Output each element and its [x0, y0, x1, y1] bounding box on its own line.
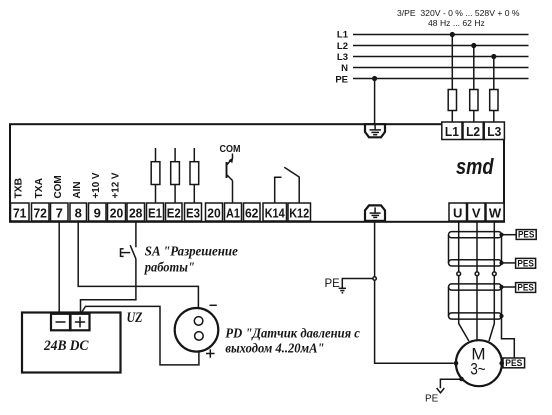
svg-text:U: U	[453, 205, 462, 220]
svg-text:20: 20	[110, 205, 124, 220]
svg-text:E3: E3	[186, 205, 200, 220]
wire motor frame to PE arrow	[440, 379, 461, 388]
minus terminal of UZ	[51, 314, 70, 331]
svg-text:выходом 4..20мА": выходом 4..20мА"	[225, 341, 324, 356]
svg-text:K14: K14	[265, 205, 286, 220]
svg-text:L2: L2	[466, 124, 480, 139]
terminal 20b	[206, 203, 223, 221]
cable shield capsule 1	[449, 232, 502, 238]
fuse F3	[490, 90, 498, 111]
svg-text:9: 9	[94, 205, 101, 220]
wire shield 4 to PES 4	[502, 316, 515, 358]
svg-text:PD "Датчик давления с: PD "Датчик давления с	[225, 326, 360, 341]
svg-text:PES: PES	[517, 283, 534, 293]
wire motor right to PES 4	[502, 362, 503, 364]
connector circle W	[492, 272, 496, 276]
wire to PES 2	[502, 262, 516, 264]
earth symbol PE branch	[339, 288, 346, 293]
junction motor frame	[459, 377, 464, 382]
svg-text:L3: L3	[487, 124, 501, 139]
wire sensor plus to supply plus	[81, 306, 199, 365]
input resistor E3	[193, 148, 195, 162]
svg-text:3/PE 320V - 0 % ... 528V + 0: 3/PE 320V - 0 % ... 528V + 0 %	[397, 8, 520, 18]
junction shield 4	[499, 314, 503, 318]
sensor terminal top	[194, 317, 203, 326]
wire mains L3	[353, 56, 529, 58]
svg-text:PE: PE	[325, 278, 341, 290]
terminal 9	[89, 203, 107, 221]
label PES 3	[516, 283, 536, 293]
wire PE drop to drive	[374, 79, 376, 125]
svg-text:работы": работы"	[144, 260, 195, 275]
terminal 7	[51, 203, 69, 221]
terminal 28	[127, 203, 145, 221]
cable shield capsule 3	[449, 284, 502, 290]
earth symbol in top cup	[370, 124, 382, 134]
svg-text:SA "Разрешение: SA "Разрешение	[145, 244, 238, 259]
motor M1	[456, 340, 502, 386]
junction on L2	[471, 43, 476, 48]
wire terminal 28 to switch	[135, 221, 137, 247]
svg-text:48 Hz ... 62 Hz: 48 Hz ... 62 Hz	[428, 18, 485, 28]
switch SA blade	[130, 245, 136, 259]
wire terminal 8 to sensor minus	[78, 221, 198, 317]
wire mains L2	[353, 45, 529, 47]
wire motor phase W	[489, 221, 494, 341]
junction motor right	[499, 361, 504, 366]
terminal L3	[484, 122, 504, 140]
wire to PES 1	[502, 234, 517, 236]
wire PE branch to earth	[342, 279, 373, 289]
terminal K14	[263, 203, 287, 221]
transistor output A1	[227, 154, 233, 204]
svg-text:smd: smd	[456, 154, 494, 179]
svg-text:K12: K12	[289, 205, 309, 220]
svg-text:L1: L1	[337, 30, 349, 41]
cable shield capsule 2	[449, 260, 502, 266]
wire switch to plus	[81, 259, 136, 314]
sensor terminal bottom	[195, 332, 204, 341]
sensor plus sign	[206, 349, 215, 357]
cable shield capsule 4	[449, 313, 502, 319]
svg-text:28: 28	[129, 205, 143, 220]
svg-text:TXB: TXB	[12, 178, 24, 199]
svg-text:72: 72	[33, 205, 47, 220]
terminal 71	[11, 203, 30, 221]
svg-text:COM: COM	[220, 143, 241, 155]
earth symbol in bottom cup	[370, 207, 381, 217]
terminal L2	[463, 122, 483, 140]
shield section 2 sides	[449, 287, 502, 316]
terminal U	[449, 203, 467, 221]
svg-text:L1: L1	[445, 124, 459, 139]
connector circle V	[475, 272, 479, 276]
junction motor left	[454, 361, 459, 366]
svg-text:71: 71	[13, 205, 27, 220]
junction on PE	[372, 76, 377, 81]
wire mains PE	[353, 78, 529, 80]
drive smd enclosure	[10, 124, 504, 222]
wire mains L1	[353, 34, 529, 36]
svg-text:PE: PE	[335, 74, 348, 85]
transistor emitter arrow	[229, 157, 234, 163]
PE terminal cup bottom	[365, 205, 385, 220]
wire to PES 3	[502, 286, 516, 288]
relay contact K12 blade	[284, 167, 299, 203]
terminal 20	[108, 203, 126, 221]
svg-text:A1: A1	[226, 205, 240, 220]
wire L2 drop to fuse	[473, 46, 475, 123]
junction shield 2	[499, 261, 503, 265]
wire terminal 7 to minus	[58, 221, 60, 314]
svg-text:7: 7	[56, 205, 63, 220]
svg-text:TXA: TXA	[33, 178, 45, 199]
junction shield 3	[499, 285, 503, 289]
PE terminal cup top	[365, 124, 385, 137]
wire PE from drive to motor	[375, 221, 454, 363]
svg-text:L2: L2	[337, 41, 348, 52]
junction on L1	[450, 32, 455, 37]
svg-text:62: 62	[245, 205, 259, 220]
svg-text:+12 V: +12 V	[109, 173, 121, 199]
svg-text:AIN: AIN	[71, 182, 83, 199]
terminal V	[468, 203, 486, 221]
terminal 62	[244, 203, 261, 221]
svg-text:3~: 3~	[470, 361, 485, 379]
fuse F1	[448, 90, 456, 111]
junction shield 1	[499, 233, 503, 237]
terminal E2	[166, 203, 183, 221]
fuse F2	[470, 90, 478, 111]
wire L1 drop to fuse	[451, 35, 453, 123]
connector circle U	[457, 272, 461, 276]
terminal E1	[147, 203, 164, 221]
switch SA actuator	[121, 248, 131, 257]
input resistor E2	[174, 148, 176, 162]
svg-text:PE: PE	[425, 394, 439, 405]
svg-text:PES: PES	[518, 230, 535, 240]
junction on L3	[491, 54, 496, 59]
wire motor phase V	[476, 221, 478, 340]
label PES 1	[516, 230, 536, 240]
input resistor E1	[155, 148, 157, 162]
sensor minus sign	[210, 304, 217, 306]
svg-text:PES: PES	[517, 258, 534, 268]
svg-text:N: N	[341, 63, 348, 74]
svg-text:24В DC: 24В DC	[43, 338, 89, 354]
relay contact K14 fixed	[275, 177, 282, 203]
svg-text:UZ: UZ	[127, 310, 143, 326]
label PES 4	[503, 358, 525, 368]
terminal 72	[32, 203, 50, 221]
terminal K12	[288, 203, 311, 221]
svg-text:W: W	[489, 205, 502, 220]
wire motor phase U	[459, 221, 469, 341]
shield section 1 sides	[449, 235, 502, 263]
svg-text:E1: E1	[148, 205, 162, 220]
svg-text:COM: COM	[52, 175, 64, 198]
label PES 2	[516, 258, 536, 268]
supply box UZ 24V DC	[22, 313, 121, 373]
plus terminal of UZ	[71, 314, 90, 331]
terminal A1	[225, 203, 242, 221]
terminal W	[486, 203, 504, 221]
terminal E3	[185, 203, 202, 221]
svg-text:L3: L3	[337, 52, 348, 63]
pressure sensor PD body	[175, 308, 219, 352]
PE arrow head	[437, 388, 445, 393]
wire mains N	[353, 67, 529, 69]
PE branch open junction	[373, 277, 376, 280]
svg-text:+10 V: +10 V	[90, 173, 102, 199]
svg-text:20: 20	[207, 205, 221, 220]
terminal L1	[442, 122, 462, 140]
svg-text:E2: E2	[167, 205, 181, 220]
terminal 8	[70, 203, 87, 221]
wire L3 drop to fuse	[493, 57, 495, 123]
svg-text:V: V	[472, 205, 481, 220]
svg-text:PES: PES	[505, 358, 522, 368]
svg-text:8: 8	[75, 205, 82, 220]
